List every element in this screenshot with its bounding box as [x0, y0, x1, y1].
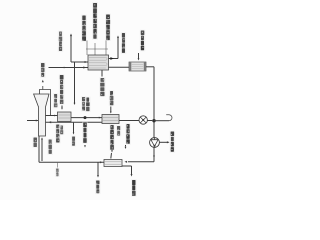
wire: vent branch	[154, 120, 169, 122]
arrowhead into E1 upper-left	[85, 61, 88, 63]
leader wire from label 3	[105, 41, 107, 56]
wire: E1 bottom drop	[101, 70, 103, 77]
oxidation vessel B2	[102, 115, 119, 124]
label: oxidation tower feed	[109, 90, 115, 106]
label: ammonia-air mixture text column 2	[92, 2, 98, 40]
arrowhead mid lower feed	[64, 67, 66, 69]
wire: column bottoms line	[39, 161, 104, 163]
arrowhead drop down	[73, 133, 75, 135]
label: NO gas col b	[85, 97, 90, 112]
label: waste water	[71, 136, 76, 147]
arrowhead acid label down	[111, 150, 113, 152]
arrowhead drain down	[97, 175, 99, 177]
arrowhead into E1 lower-left	[83, 66, 86, 68]
arrowhead into concentrator right	[125, 161, 128, 163]
wire: middle box outlet	[119, 120, 139, 122]
label: vent gas	[58, 31, 63, 52]
junction node	[152, 119, 155, 122]
label: water temp	[33, 137, 38, 148]
wire: lower feed into E1	[49, 67, 89, 69]
wire: column top to small cooler	[46, 115, 58, 117]
leader wire into E2 top	[138, 53, 140, 60]
arrowhead into small cooler top	[61, 108, 63, 110]
wire: down right side to pump	[153, 67, 155, 138]
wire: pump down leg	[153, 147, 155, 162]
brace wire over heat exchanger	[86, 48, 108, 50]
junction node on NO gas line	[84, 116, 87, 119]
wire: drop from return line	[73, 123, 75, 133]
label: hot gas text column 3	[105, 14, 111, 41]
arrowhead waste gas down	[84, 145, 86, 147]
label: under small cooler col 2	[59, 125, 64, 135]
absorption column T1 funnel	[34, 94, 49, 136]
leader wire sulfuric	[125, 145, 127, 147]
arrowhead riser up	[117, 36, 119, 38]
leader wire to concentrator top	[110, 153, 113, 159]
arrowhead into E2 top	[138, 58, 140, 60]
arrowhead into small cooler	[54, 115, 56, 117]
wire: NO gas line	[71, 117, 102, 119]
label: NO gas col a	[81, 96, 86, 111]
label: heating	[116, 125, 121, 136]
wire: upper feed into E1	[71, 61, 88, 63]
arrowhead up into column bottom	[41, 137, 43, 140]
wire: recycle up into column	[41, 140, 43, 161]
label: cooler name	[53, 93, 58, 108]
wire: into middle box top	[110, 107, 112, 113]
arrowhead sulfuric down	[125, 147, 127, 149]
arrowhead into concentrator left	[100, 161, 103, 163]
label: concentrated acid product	[170, 131, 176, 153]
label: gas feed text column 1	[81, 15, 87, 42]
concentrator B1	[104, 160, 122, 167]
vent hook to atmosphere	[166, 115, 172, 121]
wire: riser to absorber	[117, 37, 119, 59]
arrowhead into middle box	[99, 117, 101, 119]
label: under small cooler col 1	[55, 124, 61, 144]
wire: E1 lower outlet to cooler	[109, 66, 130, 68]
leader wire from label 2	[94, 43, 96, 55]
label: recycle stream	[48, 139, 53, 155]
arrowhead vent up	[70, 34, 72, 37]
wire: drain branch down	[97, 162, 99, 176]
arrowhead into middle box top	[110, 112, 112, 114]
label: tall column label right of funnel	[59, 74, 65, 105]
heat exchanger E1	[88, 55, 109, 70]
wire: column drain drop	[38, 136, 40, 162]
wire: pump discharge right	[159, 141, 168, 143]
wire: concentrator bottom outlet	[122, 165, 132, 167]
label: waste gas below junction	[82, 122, 88, 144]
label: waste liquid	[95, 180, 101, 194]
arrowhead black outlet	[110, 57, 113, 60]
label: temperature 40-50C	[99, 77, 105, 97]
arrowhead feed into column	[36, 119, 38, 121]
leader wire from label 1	[86, 41, 88, 56]
label: vapor out of dome	[40, 62, 46, 78]
small cooler E3	[58, 112, 72, 122]
arrowhead vapor up	[42, 80, 44, 82]
label: sulfuric acid add	[125, 123, 131, 145]
wire: valve to junction	[147, 120, 152, 122]
wire: to concentrator from pump	[128, 161, 154, 163]
wire: product drop	[131, 166, 133, 175]
wire: vapor stub up from dome	[42, 86, 44, 90]
wire: feed into column	[27, 120, 38, 122]
arrowhead product down	[130, 174, 132, 176]
arrowhead product out	[167, 141, 170, 143]
label: to oxidation tower	[121, 32, 127, 54]
label: tiny stub label	[55, 168, 60, 177]
wire: riser to top-left vent	[70, 35, 72, 63]
label: dilute acid product	[131, 179, 137, 196]
valve V1 (circle-cross)	[139, 116, 147, 124]
label: cooling water	[140, 30, 146, 52]
dome overhead pipe on funnel top	[40, 90, 51, 116]
wire: branch down to cooler area	[74, 62, 76, 103]
label: acid solution	[109, 124, 115, 150]
cooler E2	[129, 62, 146, 71]
wire: return line under small cooler	[46, 121, 103, 123]
pump P1	[150, 138, 160, 148]
arrowhead into column return	[49, 121, 52, 123]
leader wire into small cooler top	[61, 106, 63, 109]
arrowhead branch down	[74, 103, 76, 105]
wire: E2 outlet	[146, 66, 154, 68]
wire: small stub under bottoms line	[56, 163, 58, 168]
arrowhead pump down	[153, 156, 155, 158]
wire: E1 upper outlet	[109, 58, 119, 60]
